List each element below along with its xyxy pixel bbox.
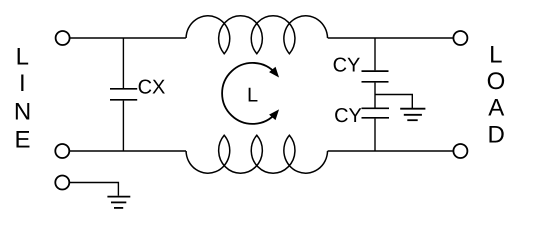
svg-text:L: L	[489, 42, 502, 69]
coupling arrow arc	[222, 63, 276, 124]
terminal load top-right	[453, 31, 467, 45]
capacitor CY2	[362, 108, 390, 118]
svg-text:E: E	[14, 127, 30, 154]
svg-text:A: A	[488, 95, 504, 122]
wire top-left	[70, 37, 186, 39]
wire CX branch lower	[122, 101, 124, 151]
svg-text:L: L	[247, 85, 258, 107]
terminal load bottom-right	[453, 144, 467, 158]
inductor winding top L	[186, 16, 327, 54]
terminal ground bottom-left	[55, 176, 69, 190]
wire CX branch upper	[122, 38, 124, 88]
wire CY branch middle	[374, 83, 376, 108]
terminal line top-left	[56, 31, 70, 45]
arrowhead upper	[269, 67, 279, 78]
ground left	[107, 197, 130, 208]
capacitor CY1	[362, 71, 389, 82]
ground right	[400, 109, 425, 121]
svg-text:I: I	[19, 70, 26, 97]
wire top-right	[328, 37, 453, 39]
svg-text:D: D	[488, 122, 505, 149]
wire CY midpoint to ground	[375, 95, 412, 109]
svg-text:O: O	[487, 68, 506, 95]
wire CY branch upper	[374, 38, 376, 70]
arrowhead lower	[269, 109, 279, 120]
svg-text:CY: CY	[333, 54, 361, 76]
wire bottom-left	[70, 150, 186, 152]
svg-text:L: L	[16, 43, 29, 70]
wire bottom-right	[328, 150, 453, 152]
svg-text:CY: CY	[334, 105, 362, 127]
svg-text:CX: CX	[138, 76, 166, 98]
inductor winding bottom L	[186, 135, 327, 173]
capacitor CX	[110, 89, 137, 100]
svg-text:N: N	[14, 98, 31, 125]
wire ground terminal	[70, 183, 119, 196]
wire CY branch lower	[374, 119, 376, 151]
terminal line bottom-left	[55, 144, 69, 158]
